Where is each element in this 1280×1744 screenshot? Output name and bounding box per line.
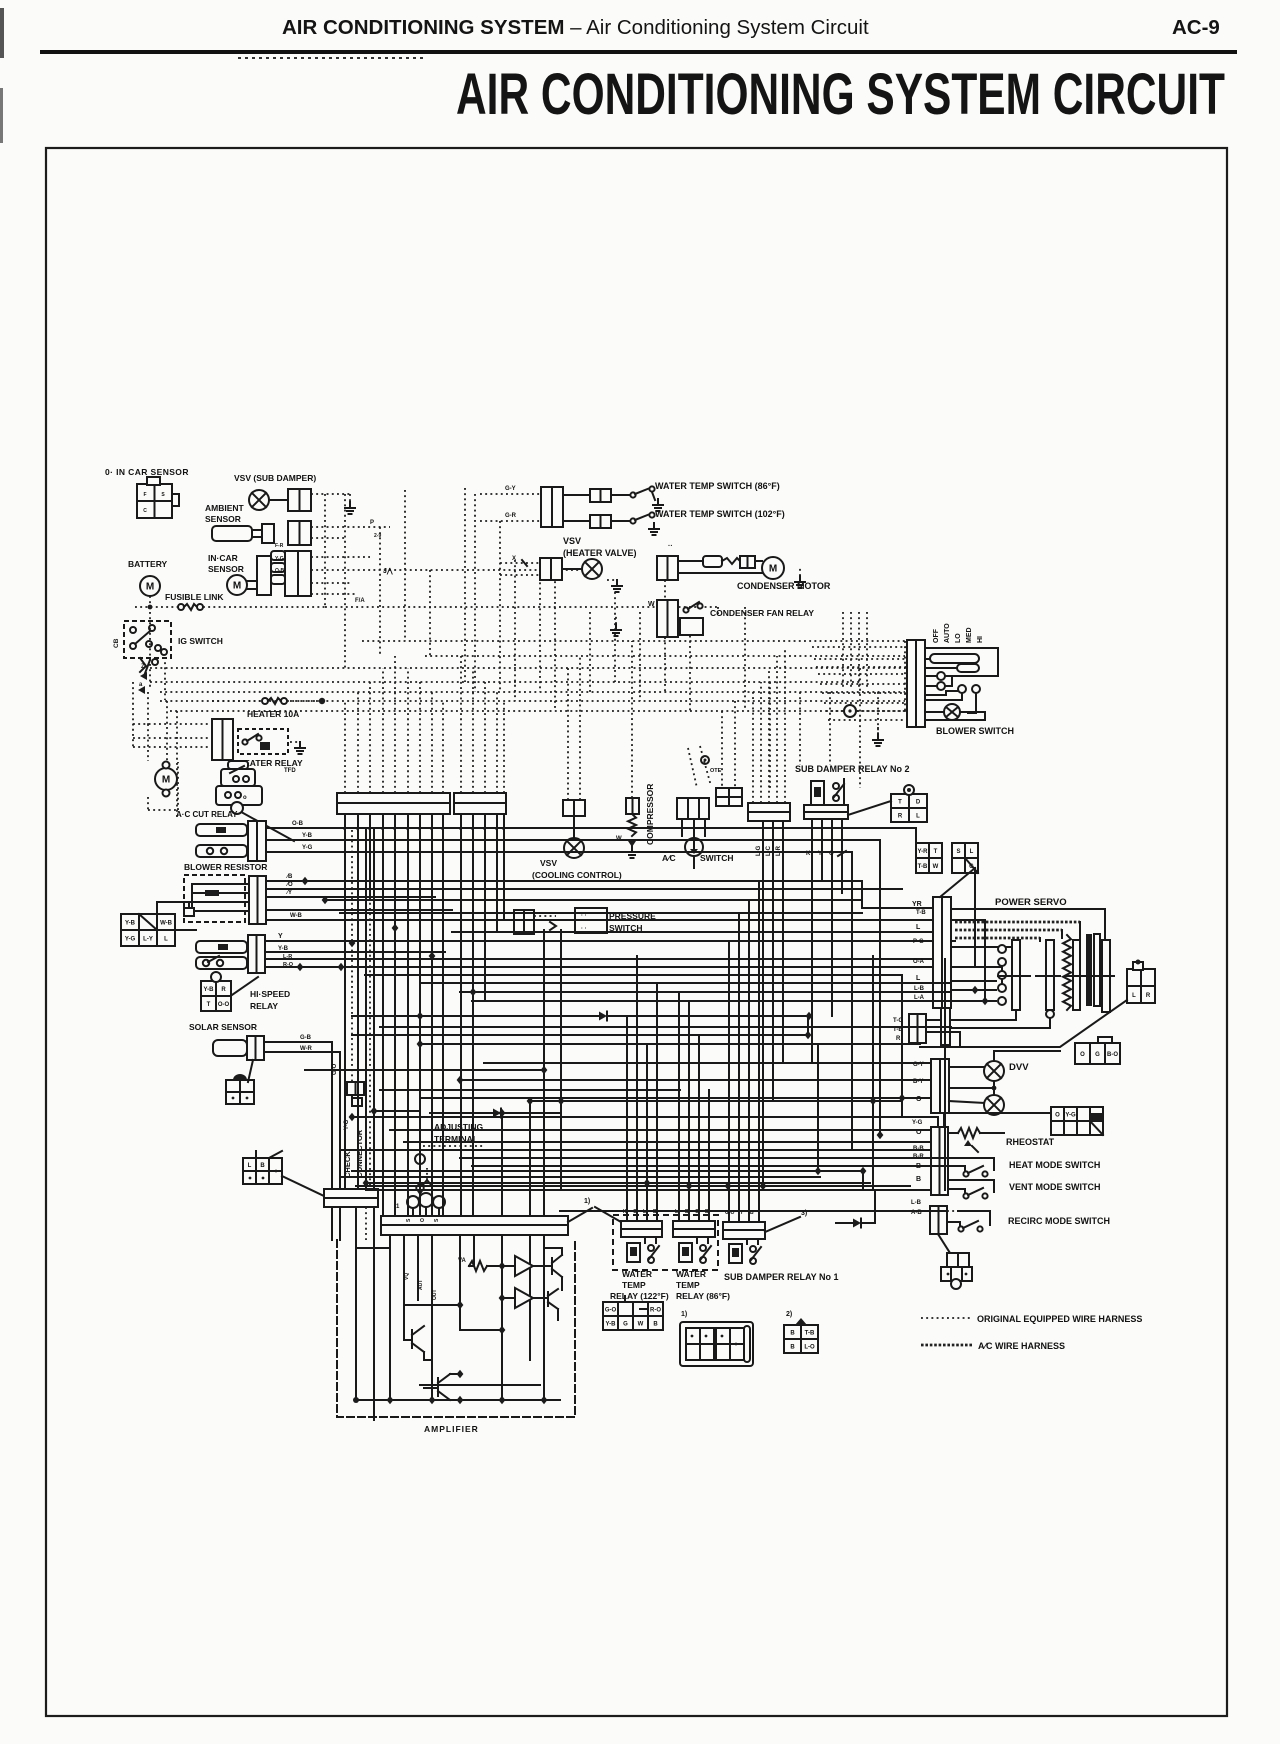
wire: battery feed dotted vertical (149, 612, 151, 688)
pointer: plug to check connector (282, 1176, 324, 1196)
svg-text:CB: CB (113, 638, 120, 648)
svg-text:BLOWER SWITCH: BLOWER SWITCH (936, 726, 1014, 736)
svg-text:AUTO: AUTO (944, 623, 951, 643)
svg-text:L-O: L-O (804, 1345, 815, 1351)
connector bar B (454, 793, 506, 803)
DVV connector bar (931, 1059, 949, 1113)
svg-text:VSV: VSV (540, 858, 557, 868)
svg-text:HEATER 10A: HEATER 10A (247, 709, 299, 719)
svg-text:WATER: WATER (622, 1269, 652, 1279)
svg-text:T: T (934, 849, 938, 855)
power servo top wire (951, 909, 1105, 938)
wire: dotted feeds to water temp connector (480, 493, 541, 495)
DVV lamp 1 (949, 1066, 984, 1068)
heater relay contacts (dotted box) (238, 729, 288, 754)
svg-text:R: R (221, 987, 226, 993)
svg-text:HI: HI (977, 636, 984, 643)
sub damper relay no2 contact (833, 783, 839, 789)
ground: blower switch (877, 734, 879, 740)
A/C switch pins (681, 819, 683, 836)
connector: relay plug A (603, 1302, 663, 1330)
connector: servo harness grid 2 (952, 843, 978, 873)
svg-text:W: W (648, 601, 655, 608)
DVV lamp 2 (949, 1101, 984, 1103)
pointer: A/C cut relay to bar (243, 813, 294, 841)
svg-text:∕Y: ∕Y (285, 889, 292, 896)
legend: A/C wire harness (921, 1344, 973, 1347)
wires: heater main outputs (266, 827, 916, 829)
pins: bar C (762, 821, 764, 1186)
svg-text:B-O: B-O (1107, 1052, 1118, 1058)
svg-text:Y-R: Y-R (917, 849, 928, 855)
pointer: 3) (765, 1217, 800, 1232)
svg-text:WATER: WATER (676, 1269, 706, 1279)
VSV heater valve connector (540, 558, 562, 580)
VSV sub damper valve (249, 490, 269, 510)
svg-text:R-O: R-O (650, 1308, 661, 1314)
blower resistor elements (192, 883, 249, 885)
adjusting terminal dotted lead (423, 1145, 484, 1147)
VSV cooling control connector (563, 800, 585, 816)
wire: diode run adjusting line (352, 1015, 599, 1017)
water temp relay (86F) coil+contact (679, 1243, 692, 1262)
svg-text:L-Y: L-Y (143, 937, 153, 943)
in-car sensor aspirator connector (137, 484, 172, 518)
svg-text:OTE: OTE (710, 768, 722, 774)
blower switch fan motor (925, 711, 944, 713)
svg-text:SOLAR SENSOR: SOLAR SENSOR (189, 1022, 257, 1032)
junctions: servo (972, 986, 979, 994)
connector: amplifier plug grid (243, 1158, 282, 1184)
water temp switch (102F) (563, 520, 590, 522)
blower resistor dashed box (184, 875, 245, 922)
svg-text:J⋀: J⋀ (383, 567, 393, 575)
svg-text:2): 2) (786, 1311, 792, 1318)
power servo slider 1 (1012, 940, 1020, 1010)
svg-text:W-R: W-R (300, 1046, 313, 1052)
IG switch contacts (130, 627, 136, 633)
svg-text:O-B: O-B (292, 821, 304, 827)
svg-text:(COOLING CONTROL): (COOLING CONTROL) (532, 870, 622, 880)
svg-text:L-G: L-G (756, 845, 762, 856)
ground: heater relay (299, 742, 301, 748)
svg-text:Y-B: Y-B (302, 833, 313, 839)
svg-text:Y-G: Y-G (1065, 1113, 1076, 1119)
blower switch loop 1 (930, 654, 979, 663)
svg-text:W-B: W-B (290, 913, 303, 919)
wire: rheostat top to plug (900, 1117, 938, 1127)
svg-text:G: G (1095, 1052, 1100, 1058)
wires: check connector verticals (331, 1042, 333, 1189)
svg-text:G-B: G-B (300, 1035, 312, 1041)
wire: DVV top to plug (994, 1051, 1060, 1061)
blower switch contact row 1 (937, 672, 945, 680)
svg-text:1: 1 (396, 1204, 400, 1210)
legend: original equipped wire harness (921, 1317, 972, 1319)
hi-speed relay contact stub (196, 957, 247, 969)
amplifier transistor 4 (437, 1378, 439, 1396)
svg-text:W: W (638, 1322, 644, 1328)
svg-text:AMBIENT: AMBIENT (205, 503, 245, 513)
wire mesh: long horizontal runs (305, 880, 862, 882)
svg-text:VSV: VSV (563, 536, 581, 546)
svg-text:··: ·· (668, 543, 673, 550)
svg-text:L-C: L-C (766, 845, 772, 856)
wire: DVV junction (993, 1081, 995, 1095)
label: pointer 4 (568, 1208, 592, 1222)
svg-text:RECIRC MODE SWITCH: RECIRC MODE SWITCH (1008, 1216, 1110, 1226)
junction: adjust line (371, 1107, 378, 1115)
svg-text:L: L (164, 937, 168, 943)
amplifier connector bar (381, 1216, 568, 1225)
HEAT mode switch (948, 1157, 973, 1159)
fuse: HEATER 10A (212, 700, 262, 702)
sub damper relay no2 bar (804, 805, 848, 812)
VSV heater valve (562, 568, 582, 570)
in-car sensor motor (227, 575, 247, 595)
wire mesh: verticals from bar A (344, 822, 346, 1189)
svg-text:YR: YR (912, 901, 922, 908)
dotted diagonals above A/C switch (688, 748, 697, 788)
wire: IG switch dotted drop (164, 657, 166, 700)
ground: condenser fan relay (615, 624, 617, 630)
hi-speed relay coil stub (196, 941, 247, 953)
svg-text:IN·CAR: IN·CAR (208, 553, 238, 563)
svg-text:COMPRESSOR: COMPRESSOR (645, 784, 655, 845)
svg-text:AUT: AUT (418, 1280, 424, 1290)
wires: bottom bar to servo (926, 1019, 941, 1021)
compressor coil and ground (628, 814, 636, 836)
blower switch loop 2 (957, 664, 979, 672)
svg-text:S: S (956, 849, 960, 855)
svg-text:A∕C WIRE HARNESS: A∕C WIRE HARNESS (978, 1341, 1065, 1351)
header rule (40, 50, 1237, 54)
svg-text:R: R (896, 1036, 901, 1042)
svg-text:T-B: T-B (805, 1331, 815, 1337)
svg-text:1): 1) (584, 1198, 590, 1205)
small connectors above check bar (347, 1082, 364, 1095)
svg-text:P: P (370, 520, 374, 526)
amplifier internal verticals (389, 1235, 391, 1400)
svg-text:T-B: T-B (918, 864, 928, 870)
svg-text:Y: Y (278, 933, 283, 940)
connector bar A (337, 793, 450, 803)
VSV cooling control valve (573, 816, 575, 838)
svg-text:FUSIBLE LINK: FUSIBLE LINK (165, 592, 224, 602)
compressor connector (626, 798, 639, 814)
A/C cut relay terminal (231, 802, 243, 814)
svg-text:B: B (653, 1322, 658, 1328)
svg-text:G: G (623, 1322, 628, 1328)
svg-text:L: L (916, 975, 921, 982)
rheostat connector bar (931, 1127, 948, 1195)
svg-text:TEMP: TEMP (676, 1280, 700, 1290)
connector: relay no2 plug (891, 794, 927, 822)
svg-text:IG SWITCH: IG SWITCH (178, 636, 223, 646)
svg-text:G-Y: G-Y (505, 486, 516, 492)
water temp relay (122F) coil+contact (627, 1243, 640, 1262)
ambient sensor body (212, 526, 252, 541)
amplifier bus junctions (387, 1396, 394, 1404)
svg-text:G-R: G-R (505, 513, 517, 519)
wire: dotted feeds (500, 562, 540, 564)
power servo resistor (1063, 935, 1071, 1010)
svg-text:RELAY (122°F): RELAY (122°F) (610, 1291, 669, 1301)
svg-text:o: o (243, 795, 247, 801)
fusible link (135, 606, 178, 608)
svg-text:LO: LO (955, 633, 962, 643)
wire bus: bar C dotted feeds (752, 692, 754, 803)
sub damper relay no2 coil (811, 781, 824, 805)
pins: bar A (344, 814, 346, 822)
wire: step bends upper right (862, 881, 933, 908)
svg-text:A∕C: A∕C (662, 853, 676, 863)
water temp relay (86F) bar (673, 1221, 715, 1229)
heater main relay contact stub (196, 845, 247, 857)
heater relay connector (212, 719, 233, 760)
water temp switches connector (541, 487, 563, 527)
svg-text:O-B: O-B (275, 568, 285, 574)
power servo slider 3 (1073, 940, 1080, 1010)
svg-text:SWITCH: SWITCH (700, 853, 734, 863)
svg-text:VQ: VQ (404, 1273, 410, 1280)
svg-text:F: F (143, 492, 146, 498)
svg-text:0· IN CAR SENSOR: 0· IN CAR SENSOR (105, 467, 189, 477)
wires: hi-speed relay outputs (265, 940, 955, 942)
svg-text:O: O (420, 1218, 426, 1222)
svg-text:T: T (207, 1002, 211, 1008)
svg-text:∕B: ∕B (285, 873, 293, 880)
wire bus: heater dotted rows (133, 723, 212, 725)
wire: dotted harness right of fusible link (325, 606, 718, 608)
svg-text:M: M (146, 582, 154, 593)
svg-text:OUT: OUT (432, 1289, 438, 1300)
wire: A/C switch ground lead (693, 856, 695, 868)
connector: servo bottom double bar (909, 1014, 926, 1043)
svg-text:O-O: O-O (218, 1002, 230, 1008)
amplifier transistor 1 (551, 1258, 553, 1274)
svg-text:W: W (933, 864, 939, 870)
svg-text:M: M (769, 564, 777, 575)
svg-text:P-G: P-G (913, 939, 924, 945)
A/C cut relay body (221, 769, 255, 786)
wire bus: dotted harness rows (362, 640, 905, 642)
svg-text:L: L (916, 924, 921, 931)
page title (456, 61, 1225, 128)
svg-text:O: O (1080, 1052, 1085, 1058)
power servo internal wires (951, 946, 1014, 948)
solar sensor body (213, 1040, 247, 1056)
amplifier bottom bus (355, 1399, 560, 1401)
pressure switch body (575, 908, 607, 933)
A/C cut relay lower body (216, 786, 262, 805)
svg-text:TEMP: TEMP (622, 1280, 646, 1290)
amplifier buffer 2 (515, 1288, 533, 1308)
svg-text:BLOWER RESISTOR: BLOWER RESISTOR (184, 862, 267, 872)
svg-text:W-B: W-B (160, 921, 173, 927)
check connector bar (324, 1189, 378, 1198)
scan artifact: left edge marks (0, 8, 4, 58)
power servo bar extension (941, 1008, 950, 1045)
pointer: recirc to plug (938, 1234, 950, 1253)
svg-text:AMPLIFIER: AMPLIFIER (424, 1424, 479, 1434)
wire mesh: right-side verticals (807, 1016, 809, 1035)
svg-text:F-R: F-R (275, 543, 284, 549)
pointer: servo right plug diagonal (920, 1000, 1127, 1047)
svg-text:RELAY (86°F): RELAY (86°F) (676, 1291, 730, 1301)
svg-text:SENSOR: SENSOR (205, 514, 241, 524)
svg-text:Y-B: Y-B (605, 1322, 616, 1328)
connector bar C (748, 803, 790, 812)
pins: bar B (460, 814, 462, 822)
wire bus: dotted feeds above bars (344, 700, 346, 793)
power servo slider 5 (1102, 940, 1110, 1012)
connector: hi-speed relay plug (201, 981, 231, 1011)
svg-text:L-R: L-R (283, 954, 292, 960)
wire: dotted loop around blower motor (147, 724, 149, 761)
svg-text:ORIGINAL EQUIPPED WIRE HARNESS: ORIGINAL EQUIPPED WIRE HARNESS (977, 1314, 1142, 1324)
wires: below check connector (331, 1207, 333, 1240)
amplifier dashed box (337, 1240, 575, 1417)
svg-text:DVV: DVV (1009, 1062, 1029, 1073)
connector: rheostat plug grid (1051, 1107, 1077, 1135)
blower switch connector bar (907, 640, 925, 727)
svg-text:T-B: T-B (916, 910, 926, 916)
blower switch contact row 2 (937, 682, 945, 690)
ambient sensor connector (288, 521, 311, 545)
connector: recirc plug (947, 1253, 969, 1267)
wire mesh: relay feed verticals (560, 930, 562, 1190)
svg-text:C: C (143, 508, 147, 514)
svg-text:CONDENSER FAN RELAY: CONDENSER FAN RELAY (710, 608, 814, 618)
amplifier buffer 1 (515, 1256, 533, 1276)
svg-text:CONDENSER MOTOR: CONDENSER MOTOR (737, 581, 831, 591)
svg-text:R: R (898, 814, 903, 820)
condenser motor connector (657, 556, 678, 580)
wire: vsv cooling dotted feeds (567, 668, 569, 800)
power servo feedback circles (998, 945, 1006, 953)
pressure switch connector (514, 910, 534, 934)
wire: compressor dotted feed (631, 641, 633, 798)
svg-text:SUB DAMPER RELAY No 2: SUB DAMPER RELAY No 2 (795, 764, 910, 774)
connector circle left of blower switch (844, 705, 856, 717)
blower switch contacts row 3 (958, 685, 966, 693)
page header (282, 16, 869, 40)
wire: battery dotted drop (149, 596, 151, 607)
svg-text:T: T (898, 800, 902, 806)
wire: grid to hi-speed relay (175, 929, 196, 931)
power servo slider 2 (1046, 940, 1054, 1010)
connector: servo harness grid 1 (916, 843, 942, 873)
svg-text:Y-G: Y-G (912, 1120, 923, 1126)
connector: solar sensor plug (226, 1080, 254, 1104)
sub damper relay no1 coil+contact (729, 1244, 742, 1263)
svg-text:∕O: ∕O (285, 881, 293, 888)
svg-text:B: B (790, 1345, 795, 1351)
heater main relay coil stub (196, 824, 247, 836)
hi-speed relay connector (248, 935, 265, 973)
svg-text:SUB DAMPER RELAY No 1: SUB DAMPER RELAY No 1 (724, 1272, 839, 1282)
recirc connector bar (930, 1206, 947, 1234)
amplifier transistor 2 (547, 1292, 549, 1306)
adjusting terminal (415, 1154, 425, 1164)
svg-text:OFF: OFF (933, 628, 940, 643)
wire mesh: junction dots (297, 963, 304, 971)
connector: servo right plug (1127, 969, 1155, 1003)
IG switch housing (dashed) (124, 621, 171, 658)
page number AC-9 (1172, 16, 1220, 40)
rheostat resistor (948, 1132, 958, 1134)
pointer: plug to sensor (248, 1060, 253, 1082)
wire mesh: amplifier feed verticals (501, 1113, 503, 1216)
svg-text:G-O: G-O (605, 1308, 617, 1314)
svg-text:X: X (512, 556, 516, 562)
diode: near relays (836, 1222, 853, 1224)
pointer: relay no2 to plug (848, 801, 891, 815)
condenser fan relay connector (657, 600, 678, 637)
svg-text:B: B (260, 1163, 265, 1169)
power servo slider 4 (dark) (1086, 934, 1092, 1006)
blower motor (155, 768, 177, 790)
svg-text:L-B: L-B (911, 1200, 922, 1206)
svg-text:VENT MODE SWITCH: VENT MODE SWITCH (1009, 1182, 1101, 1192)
blower resistor connector (249, 876, 266, 924)
power servo hatched wires (A/C harness) (955, 921, 1080, 924)
wires: in-car sensor dotted outputs (311, 556, 370, 558)
node: battery junction (148, 605, 153, 610)
svg-text:Y-G: Y-G (125, 937, 136, 943)
VENT mode switch (948, 1179, 994, 1181)
svg-text:B: B (916, 1176, 921, 1183)
wire bus: dotted verticals (132, 682, 134, 747)
wires: blower resistor outputs (266, 880, 305, 882)
svg-text:RELAY: RELAY (250, 1001, 278, 1011)
svg-text:a: a (139, 682, 143, 688)
ground: VSV sub damper (349, 502, 351, 508)
pins: relay 122F (626, 1190, 628, 1221)
svg-text:L: L (970, 849, 974, 855)
pins: sub damper relay no2 (811, 819, 813, 1063)
sub damper relay no1 bar (723, 1222, 765, 1230)
svg-text:O-A: O-A (913, 959, 925, 965)
wire bus: dotted drops to blower switch (812, 646, 907, 648)
pins: relay no1 (728, 1190, 730, 1222)
connector: relay plug C (784, 1325, 818, 1353)
svg-text:(HEATER VALVE): (HEATER VALVE) (563, 548, 637, 558)
svg-text:M: M (162, 775, 170, 786)
in-car sensor connector (247, 580, 257, 582)
svg-text:B: B (790, 1331, 795, 1337)
solar sensor connector (247, 1036, 264, 1060)
svg-text:VSV (SUB DAMPER): VSV (SUB DAMPER) (234, 473, 316, 483)
water temp relay (122F) bar (621, 1221, 662, 1229)
pins: relay 86F (678, 1190, 680, 1221)
amplifier resistor VA (469, 1261, 487, 1271)
svg-text:WATER TEMP SWITCH (86°F): WATER TEMP SWITCH (86°F) (655, 481, 780, 491)
svg-text:R-O: R-O (283, 962, 294, 968)
A/C switch connector (677, 798, 709, 819)
heater main relay connector (248, 821, 266, 861)
svg-text:L: L (916, 814, 920, 820)
svg-text:O: O (1055, 1113, 1060, 1119)
power servo bottom wires (951, 1010, 1016, 1020)
svg-text:Y-G: Y-G (275, 556, 284, 562)
wire mesh: verticals from bar B (460, 822, 462, 1216)
battery (140, 576, 160, 596)
pointer: plug to relay (232, 977, 258, 995)
svg-text:L: L (1132, 993, 1136, 999)
svg-text:Y-B: Y-B (203, 987, 214, 993)
